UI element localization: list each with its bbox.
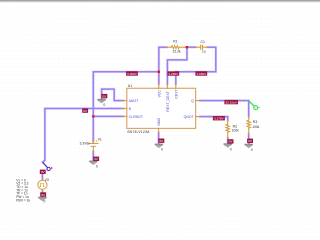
svg-text:3.278V: 3.278V [214,117,225,121]
svg-text:SN74LV123A: SN74LV123A [127,130,150,134]
svg-text:1u: 1u [202,50,206,54]
svg-text:32.10uV: 32.10uV [226,100,238,104]
svg-text:100k: 100k [252,125,259,129]
svg-text:PER = 2u: PER = 2u [16,198,30,202]
bias label 0V at ANOT ground [101,94,107,99]
ground under ANOT wire [97,99,105,103]
source V1 3.3Vdc battery [92,140,94,144]
bias label 3.283V on REXT_CEXT net [167,71,179,76]
svg-text:3.300V: 3.300V [127,72,138,76]
svg-text:0: 0 [230,148,232,152]
svg-text:0: 0 [43,200,45,204]
ground under V1 [89,161,97,165]
bias label 3.278V on QNOT net [213,116,225,121]
svg-text:V1: V1 [98,137,102,141]
wire B horizontal + left vertical down to switch [43,109,123,163]
wire R3 bottom to ground [247,134,250,144]
ground under IC GND pin [155,144,163,148]
bias label 0V at R3 ground [247,139,253,144]
top window border line [0,0,320,1]
switch U2 lever and pivot [43,162,48,168]
wire switch to V3 top [41,174,44,181]
svg-text:CLRNOT: CLRNOT [129,115,144,119]
wire CEXT: from C1 right down then left to CEXT pin [176,47,216,84]
svg-text:ANOT: ANOT [129,99,140,103]
wire VCC rail horizontal y=71.8 from x=93.3 to x=158.8 [93,72,159,140]
wire QNOT to R2 [200,117,228,121]
svg-text:CEXT: CEXT [174,89,178,99]
wire VCC vertical x=158.8 from R1 row down to VCC pin [159,47,167,84]
pin stub VCC [158,84,160,89]
wire REXT_CEXT: from junction at R1-C1 down-left to REXT_CEXT pin [167,47,187,84]
svg-text:REXT_CEXT: REXT_CEXT [166,90,170,111]
svg-text:0: 0 [96,165,98,169]
wire R1 right junction to C1 left [186,46,196,49]
wire R2 bottom to ground [226,138,229,144]
source V3 pulse [38,180,47,189]
wire IC GND pin down to ground [157,133,160,144]
svg-text:QNOT: QNOT [184,115,195,119]
resistor R2 [227,120,229,124]
IC U1 SN74LV123A body [127,88,196,128]
svg-text:R3: R3 [253,120,258,124]
bias label 1.650V on CEXT net [195,71,207,76]
bias label 0V at switch bottom [40,170,46,175]
wire V3 bottom to ground [41,191,44,197]
pin stub B [122,108,127,110]
svg-text:V3: V3 [45,178,49,182]
svg-text:GND: GND [157,118,161,126]
resistor R1 [166,46,171,48]
junction dot CLRNOT / V1 rail [92,115,94,117]
ground under R2 [224,144,232,148]
pin stub CLRNOT [122,115,127,117]
pin stub CEXT [175,84,177,89]
svg-text:0: 0 [251,148,253,152]
resistor R3 [248,116,250,120]
svg-text:Q: Q [191,99,194,103]
svg-text:R1: R1 [173,40,178,44]
wire V1 top (from left vertical) [92,138,95,142]
bias label 0V on B net [82,108,88,113]
bias label 0V at V1 bottom [93,157,99,162]
junction dot VCC rail / VCC pin [158,71,160,73]
svg-text:VCC: VCC [157,90,161,98]
wire V1 bottom to ground [92,152,95,161]
capacitor C1 [195,46,200,48]
svg-text:0: 0 [103,103,105,107]
pin stub ANOT [122,100,127,102]
svg-text:100k: 100k [232,129,239,133]
bias label 0V at R2 ground [228,139,234,144]
ground under R3 [245,144,253,148]
bias label 32.10uV on Q net [224,100,238,105]
pin stub GND [158,128,160,133]
junction dot R1-C1 node [186,46,188,48]
svg-text:3.3Vdc: 3.3Vdc [80,142,90,146]
ground under V3 [38,197,46,201]
svg-text:0: 0 [161,148,163,152]
wire ANOT loop to ground [102,89,123,101]
voltage probe (green) on Q net [249,101,254,106]
svg-text:C1: C1 [201,40,206,44]
bias label 0V at V3 bottom [40,192,46,197]
bias label 3.300V on VCC rail [126,71,138,76]
switch terminal red mark [51,167,52,168]
pin stub QNOT [196,116,201,118]
wire CLRNOT branch from left vertical to CLRNOT pin [93,115,123,118]
wire Q output to probe corner and down to R3 [200,101,249,117]
bias label 0V at IC GND [158,139,164,144]
pin stub Q [196,100,201,102]
svg-text:3.283V: 3.283V [168,72,179,76]
pin stub REXT_CEXT [166,84,168,89]
svg-text:1.650V: 1.650V [196,72,207,76]
svg-text:22.2k: 22.2k [173,49,181,53]
svg-text:U1: U1 [128,84,133,88]
